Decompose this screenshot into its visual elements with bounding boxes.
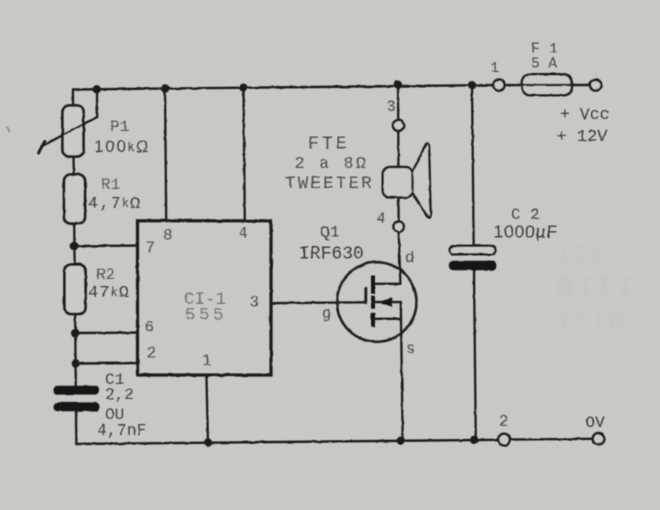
transistor Q1 IRF630 [337,232,417,342]
label OU [105,406,124,424]
label terminal 4 [377,210,386,228]
potentiometer P1 [39,89,98,156]
wire bottom rail [76,439,592,444]
svg-text:TWEETER: TWEETER [285,174,374,194]
fuse F1 [505,74,590,95]
svg-text:lI: lI [430,267,450,282]
wire top rail [73,85,493,89]
terminal Vcc [590,79,601,90]
label 2,2 [105,386,134,404]
svg-text:4,7kΩ: 4,7kΩ [88,195,141,214]
stray pencil mark [7,127,10,132]
svg-text:+ 12V: + 12V [557,128,609,147]
svg-text:7: 7 [146,239,156,257]
node source junction [397,437,405,445]
svg-text:Q1: Q1 [320,223,340,242]
svg-text:+ Vcc: + Vcc [560,105,610,124]
label 100kΩ [94,137,150,156]
resistor R1 [64,175,85,224]
wire pin 2 [75,362,137,365]
label pin 6 [145,319,155,337]
label pin 4 [239,225,249,243]
svg-text:FTE: FTE [308,135,350,155]
label terminal 1 [491,60,500,77]
svg-text:555: 555 [185,306,227,326]
svg-text:ll lll IIl lll Ill: ll lll IIl lll Ill [340,451,516,466]
label TWEETER [285,174,374,194]
ghost bleed-through text [340,219,636,466]
capacitor C2 [449,246,497,270]
svg-text:P1: P1 [110,118,129,136]
node C2 top junction [468,81,476,89]
label d [405,249,414,267]
svg-text:1: 1 [202,352,212,370]
terminal 3 [393,120,404,131]
label terminal 2 [499,413,508,431]
wire pin 1 [206,375,208,443]
svg-text:4: 4 [239,225,249,243]
capacitor C1 [54,386,100,412]
svg-text:2 a 8Ω: 2 a 8Ω [295,155,368,174]
op-amp U1 555 timer box [138,221,272,375]
label 2 a 8Ω [295,155,368,174]
wire left column [73,90,76,445]
svg-text:6: 6 [145,319,155,337]
node tweeter junction [394,81,402,89]
svg-text:3: 3 [387,98,396,116]
label 4,7kΩ [88,195,141,214]
wire tweeter branch [397,85,400,222]
svg-text:g: g [322,305,331,323]
label F1 [531,41,558,58]
label 47kΩ [88,284,130,303]
svg-text:BIII: BIII [556,272,636,306]
wire C2 branch [472,85,476,440]
svg-text:1: 1 [491,60,500,77]
svg-text:100kΩ: 100kΩ [94,137,150,156]
svg-text:5 A: 5 A [531,57,557,73]
svg-text:3: 3 [250,294,260,312]
label pin 2 [147,345,157,363]
label 1000µF [494,222,559,242]
svg-text:2: 2 [499,413,508,431]
node pin7 junction [70,242,78,250]
node pin6 junction [71,329,79,337]
svg-text:4: 4 [377,210,386,228]
svg-text:4,7nF: 4,7nF [97,421,147,440]
label terminal 3 [387,98,396,116]
node pin8 junction [161,84,169,92]
label pin 8 [163,227,173,245]
label g [322,305,331,323]
svg-text:IRF630: IRF630 [299,245,364,265]
svg-text:47kΩ: 47kΩ [88,284,130,303]
label Q1 [320,223,340,242]
terminal 0V [593,433,605,445]
svg-text:1000µF: 1000µF [494,222,559,242]
wire pin 7 [74,244,137,247]
label C1 [105,371,124,389]
label 555 [185,306,227,326]
svg-text:R2: R2 [96,266,115,284]
label R2 [96,266,115,284]
node pin2 junction [71,359,79,367]
speaker FTE tweeter [383,143,431,217]
svg-text:IIBI: IIBI [556,240,626,270]
label 4,7nF [97,421,147,440]
label pin 1 [202,352,212,370]
svg-text:2,2: 2,2 [105,386,134,404]
node C2 bottom junction [470,436,478,444]
wire pin 8 [165,89,166,221]
node pin4 junction [239,84,247,92]
terminal 1 [493,80,504,91]
label +Vcc [560,105,610,124]
terminal 4 [393,222,403,232]
label R1 [101,176,120,194]
label IRF630 [299,245,364,265]
label C2 [511,206,540,224]
label P1 [110,118,129,136]
label pin 3 [250,294,260,312]
label pin 7 [146,239,156,257]
wire pin 6 [75,331,137,334]
node pin1 junction [204,438,212,446]
label FTE [308,135,350,155]
svg-text:2: 2 [147,345,157,363]
node P1 wiper junction [93,85,101,93]
resistor R2 [65,265,86,315]
svg-text:d: d [405,249,414,267]
svg-text:s: s [406,340,415,358]
svg-text:R1: R1 [101,176,120,194]
label OV [586,414,606,432]
wire source to rail [401,319,403,441]
label 5A [531,57,557,73]
svg-text:IIIB: IIIB [556,308,626,338]
wire pin 4 [244,88,245,221]
svg-text:8: 8 [163,227,173,245]
label CI-1 [184,290,226,310]
label +12V [557,128,609,147]
svg-text:OV: OV [586,414,606,432]
svg-text:F 1: F 1 [531,41,558,58]
label s [406,340,415,358]
wire pin 3 gate lead [271,301,366,304]
terminal 2 [498,434,510,446]
